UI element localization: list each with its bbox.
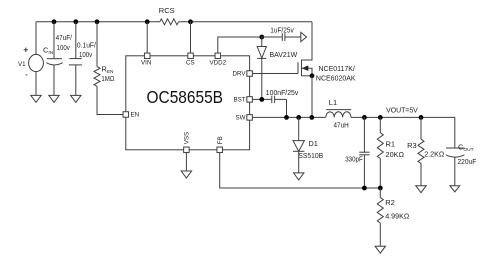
ground (COUT) bbox=[450, 186, 460, 192]
svg-text:R2: R2 bbox=[385, 198, 395, 207]
svg-text:VIN: VIN bbox=[141, 59, 151, 66]
node junction dots on top rail bbox=[52, 19, 57, 24]
ground (D1) bbox=[294, 173, 304, 180]
svg-text:0.1uF/: 0.1uF/ bbox=[77, 41, 97, 50]
svg-text:100v: 100v bbox=[79, 50, 92, 59]
resistor R2 4.99K bbox=[379, 188, 381, 198]
wire REN to EN bbox=[97, 86, 123, 114]
svg-text:220uF: 220uF bbox=[458, 157, 477, 166]
svg-text:VDD2: VDD2 bbox=[210, 59, 227, 66]
svg-text:BST: BST bbox=[233, 97, 245, 104]
pin BST bbox=[247, 97, 253, 103]
svg-text:SS510B: SS510B bbox=[298, 151, 323, 160]
resistor R1 20K bbox=[379, 117, 381, 132]
transistor Q1 NCE0117K/NCE6020AK bbox=[252, 73, 298, 75]
svg-text:4.99KΩ: 4.99KΩ bbox=[385, 212, 409, 221]
svg-text:RCS: RCS bbox=[159, 6, 175, 15]
svg-text:CIN: CIN bbox=[43, 45, 54, 56]
resistor R3 2.2K bbox=[420, 117, 422, 139]
capacitor 330pF bbox=[363, 117, 365, 152]
pin SW bbox=[247, 115, 253, 121]
svg-text:L1: L1 bbox=[329, 98, 337, 107]
pin DRV bbox=[247, 71, 253, 77]
ground (VSS) bbox=[181, 171, 191, 178]
pin VIN bbox=[144, 53, 150, 59]
svg-text:R1: R1 bbox=[386, 140, 396, 149]
ground (0.1uF) bbox=[71, 95, 81, 102]
capacitor CIN 47uF/100v bbox=[53, 22, 55, 59]
resistor REN 1M bbox=[96, 22, 98, 67]
svg-text:DRV: DRV bbox=[233, 71, 247, 78]
svg-text:VSS: VSS bbox=[184, 132, 191, 144]
capacitor 0.1uF/100v bbox=[75, 22, 77, 59]
svg-text:100v: 100v bbox=[57, 43, 70, 52]
capacitor COUT 220uF bbox=[446, 147, 465, 149]
svg-text:D1: D1 bbox=[308, 139, 318, 148]
svg-text:COUT: COUT bbox=[458, 143, 474, 154]
svg-text:47uF/: 47uF/ bbox=[56, 33, 73, 42]
ground (CIN) bbox=[49, 95, 59, 102]
capacitor 100nF/25v bbox=[252, 98, 271, 100]
svg-text:1MΩ: 1MΩ bbox=[101, 74, 114, 83]
inductor L1 47uH bbox=[326, 112, 351, 118]
wire FB line bbox=[220, 153, 381, 188]
svg-text:R3: R3 bbox=[407, 141, 417, 150]
diode D1 SS510B bbox=[298, 117, 300, 140]
svg-text:NCE0117K/: NCE0117K/ bbox=[319, 64, 356, 73]
svg-text:VOUT=5V: VOUT=5V bbox=[386, 105, 418, 114]
svg-text:CS: CS bbox=[186, 59, 195, 66]
pin FB bbox=[217, 147, 223, 153]
svg-text:NCE6020AK: NCE6020AK bbox=[316, 73, 356, 82]
wire VSS to ground bbox=[185, 153, 187, 171]
svg-text:EN: EN bbox=[131, 112, 140, 119]
IC U1 OC58655B bbox=[126, 56, 250, 150]
svg-text:BAV21W: BAV21W bbox=[270, 50, 299, 59]
wire top rail right bbox=[179, 21, 313, 23]
svg-text:1uF/25v: 1uF/25v bbox=[270, 25, 294, 34]
wire SW line bbox=[252, 116, 325, 118]
ground (R2) bbox=[375, 246, 385, 253]
wire CS pin drop bbox=[190, 22, 192, 53]
node arrow into VIN rail bbox=[301, 32, 307, 41]
ground (V1) bbox=[31, 95, 41, 102]
svg-text:FB: FB bbox=[217, 136, 224, 144]
svg-text:SW: SW bbox=[236, 115, 246, 122]
svg-text:20KΩ: 20KΩ bbox=[386, 150, 405, 159]
svg-text:2.2KΩ: 2.2KΩ bbox=[424, 149, 444, 158]
diode BAV21W bbox=[259, 35, 264, 40]
source V1 bbox=[35, 22, 37, 55]
pin CS bbox=[188, 53, 194, 59]
svg-text:100nF/25v: 100nF/25v bbox=[266, 88, 299, 97]
pin VSS bbox=[184, 147, 190, 153]
ground (R3) bbox=[416, 186, 426, 193]
capacitor 1uF/25v bbox=[262, 36, 282, 38]
wire VIN pin drop bbox=[146, 22, 148, 53]
resistor RCS bbox=[160, 19, 179, 25]
svg-text:330pF: 330pF bbox=[345, 154, 363, 163]
wire VDD2 up and right bbox=[218, 37, 262, 53]
pin VDD2 bbox=[215, 53, 221, 59]
svg-text:V1: V1 bbox=[18, 61, 26, 68]
wire top rail bbox=[36, 21, 160, 23]
svg-text:OC58655B: OC58655B bbox=[147, 87, 224, 107]
svg-text:47uH: 47uH bbox=[334, 121, 349, 130]
pin EN bbox=[123, 112, 129, 118]
wire VOUT line bbox=[351, 117, 455, 148]
